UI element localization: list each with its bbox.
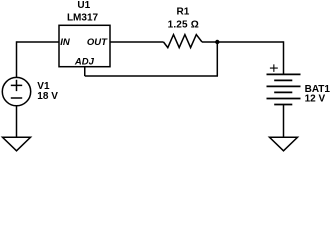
wire [16,106,18,138]
pin label ADJ [74,57,95,68]
svg-text:R1: R1 [177,7,190,18]
svg-text:OUT: OUT [87,37,108,48]
wire [283,41,285,74]
IC U1 LM317 [59,25,110,66]
svg-text:LM317: LM317 [67,12,99,23]
wire [84,67,86,76]
ground [270,137,298,151]
R1 value label [168,20,199,31]
wire [17,41,60,43]
V1 value label [37,91,58,102]
voltage source V1 [2,77,30,105]
svg-text:18 V: 18 V [37,91,58,102]
svg-text:1.25 Ω: 1.25 Ω [168,20,199,31]
pin label OUT [87,37,108,48]
R1 label [177,7,190,18]
wire [202,41,284,43]
wire [16,41,18,77]
BAT1 label [305,84,330,95]
V1 label [37,81,50,92]
U1 label [77,0,90,11]
wire [283,105,285,138]
BAT1 value label [305,94,326,105]
wire [110,41,164,43]
pin label IN [60,37,71,48]
resistor R1 [164,35,203,48]
svg-text:12 V: 12 V [305,94,326,105]
wire [216,42,218,76]
battery BAT1 [267,64,301,104]
node junction [215,40,219,44]
wire [85,75,218,77]
U1 value label LM317 [67,12,99,23]
svg-text:U1: U1 [77,0,90,11]
svg-text:ADJ: ADJ [74,57,95,68]
svg-text:IN: IN [60,37,71,48]
ground [3,137,31,151]
